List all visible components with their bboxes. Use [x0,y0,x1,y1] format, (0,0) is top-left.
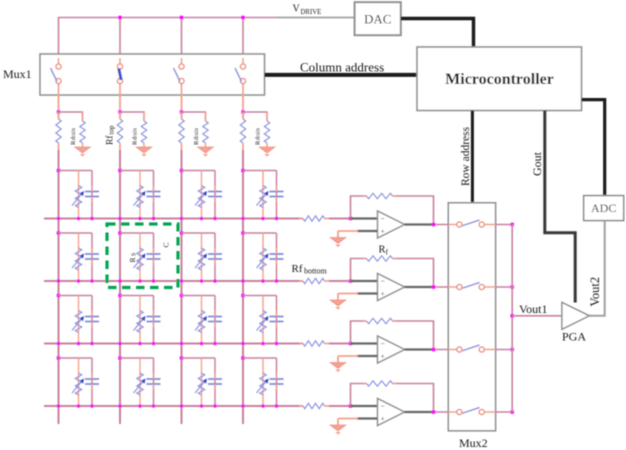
mux U1 Mux1 box [40,54,265,95]
svg-text:−: − [381,401,385,410]
junction op-amp 1 output-feedback [432,223,436,227]
wire cell col1 row3 branch [57,294,92,344]
svg-text:R: R [379,245,386,256]
junction cell col3 row1 C-row [213,217,216,220]
resistor row 2 input [299,278,329,283]
pga U10 amplifier triangle [562,302,589,329]
resistor Rs cell col2 row3 [134,311,146,333]
junction column-row crossing [118,217,121,220]
capacitor C cell col4 row1 [270,186,284,203]
wire cell col4 row3 branch [241,294,276,344]
svg-text:−: − [381,276,385,285]
wire op-amp 2 feedback loop [351,259,434,288]
svg-text:top: top [108,125,116,134]
wire cell col3 row4 branch [180,356,215,406]
wire bus drop column 4 [242,18,244,64]
highlight green dashed cell box [107,224,178,288]
junction cell col1 row2 C-row [90,279,93,282]
junction cell col1 row3 C-row [90,342,93,345]
resistor column 3 series (in line) [179,112,184,150]
svg-text:Row address: Row address [460,126,472,186]
capacitor C cell col3 row3 [208,311,222,328]
label Rfbottom [292,263,328,276]
junction cell col1 row2 Rs-row [77,279,80,282]
wire op-amp 4 output to Mux2 [434,411,457,413]
label Rs [128,253,138,263]
svg-text:+: + [381,289,385,298]
capacitor C cell col2 row1 [147,186,161,203]
wire row 4 horizontal [44,405,303,407]
ground column 2 drain [136,147,152,157]
resistor Rf op-amp 1 feedback [363,193,396,198]
svg-text:−: − [381,339,385,348]
wire column 3 vertical [181,150,183,424]
resistor Rs cell col4 row2 [257,248,269,270]
resistor Rs cell col1 row1 [72,186,84,208]
junction cell col3 row4 Rs-row [200,404,203,407]
ground op-amp 4 [330,425,346,435]
op-amp U8 triangle [378,399,405,426]
svg-text:drain: drain [71,128,77,140]
wire op-amp 1 output to Mux2 [434,224,457,226]
adc U4 ADC box [584,196,624,221]
svg-text:Mux1: Mux1 [3,67,32,81]
wire op-amp 2 minus input [351,280,378,282]
svg-text:+: + [381,352,385,361]
junction column-row crossing [118,279,121,282]
wire op-amp 4 feedback loop [351,384,434,413]
label PGA [562,330,586,344]
junction cell col2 row2 C-row [152,279,155,282]
capacitor C cell col4 row2 [270,248,284,265]
junction op-amp 4 output-feedback [432,410,436,414]
wire op-amp 1 minus input [351,217,378,219]
label R drain column 1 [70,128,77,145]
dac U2 DAC box [355,2,401,35]
junction op-amp 3 inverting input node [349,342,353,346]
wire drain branch column 2 [120,112,144,121]
ground column 3 drain [198,147,214,157]
junction column 1 drain tap [57,110,61,114]
resistor Rs cell col4 row4 [257,373,269,395]
junction column-row crossing [180,279,183,282]
junction cell col3 row3 Rs-row [200,342,203,345]
label Vout2 [588,277,602,307]
wire row address (Microcontroller to Mux2) [471,111,474,203]
junction cell col4 row3 C-row [275,342,278,345]
wire column 3 below Mux1 [181,95,183,119]
resistor Rs cell col2 row1 [134,186,146,208]
wire op-amp 4 plus input to ground [338,419,378,426]
wire column 1 vertical [58,150,60,424]
svg-text:R: R [128,257,137,262]
capacitor C cell col2 row2 [147,248,161,265]
wire op-amp 1 feedback loop [351,196,434,225]
label Row address [460,126,472,186]
svg-text:−: − [381,214,385,223]
wire cell col2 row1 branch [118,169,153,219]
resistor row 1 input [299,216,329,221]
svg-text:V: V [293,4,301,15]
capacitor C cell col3 row1 [208,186,222,203]
capacitor C cell col1 row2 [85,248,99,265]
wire cell col4 row2 branch [241,231,276,281]
wire cell col1 row1 branch [57,169,92,219]
wire op-amp 3 minus input [351,342,378,344]
junction op-amp 1 inverting input node [349,217,353,221]
resistor Rdrain column 4 [264,112,269,147]
wire column address (Mux1 to Microcontroller) [265,73,418,77]
wire op-amp 4 output [405,411,435,413]
wire op-amp 4 minus input [351,405,378,407]
label ADC [591,201,616,215]
label Microcontroller [445,71,554,88]
wire row 1 horizontal [44,218,303,220]
wire op-amp 2 output to Mux2 [434,286,457,288]
ground column 1 drain [75,147,91,157]
junction column 2 drain tap [118,110,122,114]
wire op-amp 2 plus input to ground [338,294,378,301]
junction cell col1 row4 C-row [90,404,93,407]
wire drain branch column 4 [243,112,267,121]
resistor Rs cell col4 row3 [257,311,269,333]
resistor Rs cell col2 row4 [134,373,146,395]
label C [162,242,171,247]
svg-text:drain: drain [256,128,262,140]
junction op-amp 2 inverting input node [349,279,353,283]
junction cell col1 row4 Rs-row [77,404,80,407]
wire column 4 vertical [242,150,244,424]
wire cell col3 row1 branch [180,169,215,219]
microcontroller U3 box [417,47,582,111]
wire cell col1 row4 branch [57,356,92,406]
capacitor C cell col1 row4 [85,373,99,390]
junction cell col1 row1 Rs-row [77,217,80,220]
wire bus drop column 1 [58,18,60,64]
wire row 3 to op-amp [329,343,352,345]
wire column 2 below Mux1 [119,95,121,119]
switch S8 in Mux2 (row 4) [448,408,495,415]
junction Mux2 output bus row 1 [510,223,514,227]
label Mux1 [3,67,32,81]
svg-text:ADC: ADC [591,201,616,215]
junction cell col3 row3 C-row [213,342,216,345]
junction cell col2 row1 C-row [152,217,155,220]
resistor Rdrain column 1 [80,112,85,147]
resistor Rf op-amp 2 feedback [363,256,396,261]
junction cell col2 row2 Rs-row [138,279,141,282]
junction cell col2 row3 Rs-row [138,342,141,345]
junction cell col3 row1 Rs-row [200,217,203,220]
junction column-row crossing [180,217,183,220]
junction column-row crossing [241,404,244,407]
junction column-row crossing [180,404,183,407]
wire V_DRIVE top bus (pink segment) [58,17,276,19]
switch S5 in Mux2 (row 1) [448,220,495,227]
label Rf [379,245,389,257]
resistor Rf op-amp 4 feedback [363,381,396,386]
switch S4 in Mux1 (column 4) [235,58,246,97]
label R drain column 3 [193,128,200,145]
junction cell col2 row4 Rs-row [138,404,141,407]
label DAC [364,12,391,27]
wire column 4 below Mux1 [242,95,244,119]
resistor Rf op-amp 3 feedback [363,318,396,323]
svg-text:f: f [386,248,389,257]
junction cell col3 row4 C-row [213,404,216,407]
junction Mux2 output bus row 2 [510,285,514,289]
junction cell col2 row1 Rs-row [138,217,141,220]
wire drain branch column 3 [182,112,206,121]
svg-text:Rf: Rf [105,135,116,145]
junction column-row crossing [57,217,60,220]
label V_DRIVE [293,4,322,17]
wire Microcontroller to ADC [582,100,605,196]
junction column 3 drain tap [180,110,184,114]
wire bus drop column 3 [181,18,183,64]
op-amp U7 triangle [378,336,405,363]
svg-text:Vout2: Vout2 [588,277,602,307]
resistor column 1 series (in line) [56,112,61,150]
capacitor C cell col4 row4 [270,373,284,390]
wire op-amp 3 output to Mux2 [434,349,457,351]
junction cell col4 row4 C-row [275,404,278,407]
wire op-amp 2 output [405,286,435,288]
label Vout1 [519,302,547,316]
wire Mux2 row 2 output [496,286,513,288]
junction cell col4 row1 C-row [275,217,278,220]
svg-text:Column address: Column address [300,60,384,75]
capacitor C cell col4 row3 [270,311,284,328]
wire Vout1 (bus to PGA) [512,315,562,317]
wire row 2 horizontal [44,280,303,282]
wire cell col3 row3 branch [180,294,215,344]
resistor Rs cell col3 row2 [195,248,207,270]
ground op-amp 3 [330,363,346,373]
switch S3 in Mux1 (column 3) [174,58,185,97]
junction Vout1 tap [510,314,514,318]
junction cell col4 row1 Rs-row [261,217,264,220]
svg-text:+: + [381,227,385,236]
op-amp U5 triangle [378,211,405,238]
junction cell col1 row3 Rs-row [77,342,80,345]
resistor Rs cell col3 row4 [195,373,207,395]
capacitor C cell col1 row1 [85,186,99,203]
junction cell col4 row4 Rs-row [261,404,264,407]
wire column 1 below Mux1 [58,95,60,119]
label R drain column 4 [255,128,262,145]
junction column-row crossing [180,342,183,345]
junction op-amp 2 output-feedback [432,285,436,289]
svg-text:PGA: PGA [562,330,586,344]
label Gout [530,151,544,176]
wire cell col4 row4 branch [241,356,276,406]
resistor Rdrain column 2 [141,112,146,147]
svg-text:DRIVE: DRIVE [301,9,322,16]
resistor column 2 series (in line) [117,112,122,150]
junction column-row crossing [57,404,60,407]
wire DAC to Microcontroller [401,19,474,48]
svg-text:Rf: Rf [292,263,303,275]
capacitor C cell col1 row3 [85,311,99,328]
resistor Rs cell col3 row1 [195,186,207,208]
svg-text:+: + [381,414,385,423]
junction on top bus [180,16,184,20]
junction column-row crossing [241,342,244,345]
wire row 4 to op-amp [329,405,352,407]
resistor Rdrain column 3 [203,112,208,147]
label Column address [300,60,384,75]
ground op-amp 2 [330,300,346,310]
wire cell col2 row3 branch [118,294,153,344]
svg-text:drain: drain [133,128,139,140]
junction column-row crossing [241,279,244,282]
op-amp U6 triangle [378,274,405,301]
junction Mux2 output bus row 4 [510,410,514,414]
junction cell col4 row2 Rs-row [261,279,264,282]
junction column-row crossing [57,342,60,345]
resistor row 4 input [299,403,329,408]
wire bus drop column 2 [119,18,121,64]
wire drain branch column 1 [59,112,83,121]
junction cell col4 row3 Rs-row [261,342,264,345]
wire row 3 horizontal [44,343,303,345]
wire Vout2 (PGA output to ADC) [589,221,604,316]
svg-text:bottom: bottom [304,267,327,276]
junction column-row crossing [118,342,121,345]
wire cell col2 row4 branch [118,356,153,406]
junction column-row crossing [57,279,60,282]
junction cell col2 row3 C-row [152,342,155,345]
svg-text:Vout1: Vout1 [519,302,547,316]
resistor column 4 series (in line) [240,112,245,150]
label Rftop (column 2 series resistor) [105,125,116,145]
capacitor C cell col2 row4 [147,373,161,390]
label R drain column 2 [132,128,139,145]
mux U9 Mux2 box [448,203,495,431]
switch S6 in Mux2 (row 2) [448,283,495,290]
wire V_DRIVE to DAC (grey segment) [276,17,355,19]
wire Mux2 row 4 output [496,411,513,413]
svg-text:DAC: DAC [364,12,391,27]
wire cell col2 row2 branch [118,231,153,281]
wire op-amp 1 plus input to ground [338,231,378,238]
wire row 2 to op-amp [329,280,352,282]
wire row 1 to op-amp [329,218,352,220]
resistor Rs cell col2 row2 [134,248,146,270]
junction op-amp 3 output-feedback [432,348,436,352]
resistor Rs cell col1 row2 [72,248,84,270]
wire op-amp 3 feedback loop [351,321,434,350]
wire op-amp 3 output [405,348,435,350]
svg-text:Microcontroller: Microcontroller [445,71,554,88]
capacitor C cell col3 row2 [208,248,222,265]
junction on top bus [118,16,122,20]
resistor Rs cell col3 row3 [195,311,207,333]
wire op-amp 1 output [405,223,435,225]
capacitor C cell col3 row4 [208,373,222,390]
resistor Rs cell col1 row3 [72,311,84,333]
switch S1 in Mux1 (column 1) [51,58,62,97]
capacitor C cell col2 row3 [147,311,161,328]
junction column 4 drain tap [241,110,245,114]
resistor Rs cell col4 row1 [257,186,269,208]
junction on top bus [241,16,245,20]
svg-text:Mux2: Mux2 [459,436,488,450]
junction Mux2 output bus row 3 [510,348,514,352]
svg-text:drain: drain [194,128,200,140]
junction cell col3 row2 C-row [213,279,216,282]
resistor Rs cell col1 row4 [72,373,84,395]
wire Gout (Microcontroller to PGA gain input) [545,111,575,303]
junction cell col1 row1 C-row [90,217,93,220]
switch S7 in Mux2 (row 3) [448,345,495,352]
junction cell col3 row2 Rs-row [200,279,203,282]
wire Mux2 row 3 output [496,349,513,351]
ground op-amp 1 [330,238,346,248]
resistor row 3 input [299,341,329,346]
svg-text:S: S [132,253,138,256]
wire Mux2 row 1 output [496,224,513,226]
junction cell col2 row4 C-row [152,404,155,407]
ground column 4 drain [259,147,275,157]
wire cell col4 row1 branch [241,169,276,219]
junction column-row crossing [241,217,244,220]
label Mux2 [459,436,488,450]
wire cell col3 row2 branch [180,231,215,281]
svg-text:C: C [162,242,171,247]
wire cell col1 row2 branch [57,231,92,281]
wire op-amp 3 plus input to ground [338,356,378,363]
svg-text:Gout: Gout [530,151,544,176]
wire Mux2 output bus vertical [511,225,513,413]
junction op-amp 4 inverting input node [349,404,353,408]
switch S2 in Mux1 (column 2, closed) [117,58,122,97]
wire column 2 vertical [119,150,121,424]
junction cell col4 row2 C-row [275,279,278,282]
junction column-row crossing [118,404,121,407]
